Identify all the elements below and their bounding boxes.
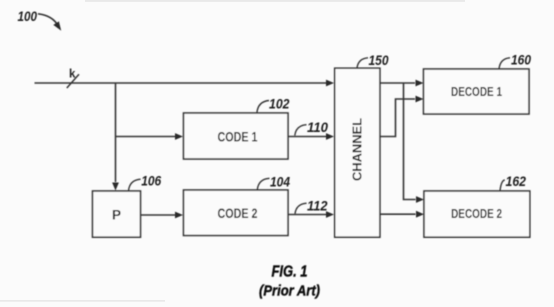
svg-text:104: 104 [270,174,290,189]
svg-text:k: k [69,68,76,80]
wire main input line to CHANNEL [35,80,335,87]
svg-text:150: 150 [369,53,389,68]
svg-text:CODE 1: CODE 1 [218,128,258,144]
block DECODE 2 [424,191,530,237]
wire branch to CODE 1 [116,133,184,140]
label 150 [357,53,389,68]
label 110 [295,120,329,135]
svg-text:P: P [112,207,121,222]
svg-text:DECODE 2: DECODE 2 [451,206,502,221]
wire branch down to P [112,83,119,191]
block CHANNEL [335,68,380,237]
svg-text:100: 100 [18,9,38,24]
scan artifact top edge [85,0,465,2]
scan artifact bottom-left edge [0,300,165,302]
svg-text:102: 102 [269,96,290,111]
wire P to CODE 2 [141,212,184,219]
svg-text:106: 106 [141,174,161,189]
svg-text:112: 112 [307,199,328,214]
label 112 [295,199,328,214]
wire CHANNEL to DECODE 1 lower (jog up) [380,96,424,137]
svg-text:160: 160 [511,52,531,67]
label 160 [499,52,531,69]
svg-text:CODE 2: CODE 2 [218,205,258,221]
svg-text:CHANNEL: CHANNEL [350,118,365,181]
bus width slash k [67,74,79,88]
block CODE 1 [184,113,289,159]
leader arrow for 100 [38,14,61,31]
svg-text:FIG. 1: FIG. 1 [272,264,308,281]
label 102 [257,96,290,113]
block DECODE 1 [424,69,530,114]
svg-text:(Prior Art): (Prior Art) [259,282,320,299]
wire CODE 1 to CHANNEL [288,133,334,140]
svg-text:110: 110 [307,120,328,135]
block P [93,191,141,237]
wire CHANNEL to DECODE 1 upper [380,80,424,87]
label 162 [500,174,526,191]
wire CODE 2 to CHANNEL [288,211,334,218]
label 106 [129,174,162,191]
block CODE 2 [184,190,289,236]
svg-text:162: 162 [506,174,527,189]
wire CHANNEL to DECODE 2 lower [380,211,424,218]
label 104 [257,174,290,190]
wire branch to DECODE 2 upper [404,83,425,203]
svg-text:DECODE 1: DECODE 1 [451,84,502,99]
